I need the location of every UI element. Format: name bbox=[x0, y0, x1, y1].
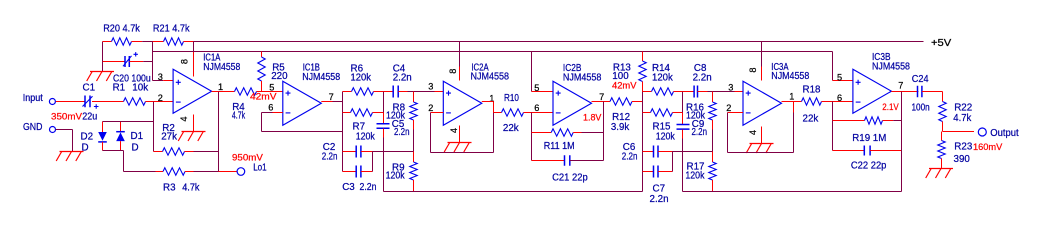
capacitor C5 bbox=[377, 124, 390, 129]
resistor R2 bbox=[154, 148, 219, 155]
label C7 bbox=[653, 184, 666, 195]
capacitor C20 bbox=[103, 52, 153, 67]
label R17 bbox=[687, 162, 705, 173]
label R13 value bbox=[612, 71, 629, 82]
svg-text:Output: Output bbox=[990, 128, 1019, 139]
label C24 value bbox=[912, 102, 930, 113]
svg-text:Lo1: Lo1 bbox=[253, 162, 267, 173]
wire IC1A output bbox=[212, 91, 219, 93]
label R9 bbox=[392, 163, 405, 174]
wire stage4 bottom line bbox=[683, 191, 902, 193]
pin 2 IC2A bbox=[428, 103, 433, 113]
label R8 value bbox=[386, 111, 405, 122]
diode D1 bbox=[116, 122, 125, 151]
label IC1A part bbox=[203, 62, 240, 73]
svg-text:42mV: 42mV bbox=[250, 91, 277, 101]
svg-text:4: 4 bbox=[179, 117, 189, 122]
ground (R23) bbox=[926, 169, 953, 179]
label 950mV bbox=[232, 152, 263, 162]
node X vertical bbox=[642, 92, 644, 192]
label R1 value bbox=[132, 83, 148, 94]
resistor R8 bbox=[410, 92, 417, 152]
svg-text:+5V: +5V bbox=[931, 38, 952, 49]
ground (bias divider) bbox=[87, 62, 114, 82]
pin 2 IC1A bbox=[158, 93, 163, 103]
label IC1A bbox=[203, 53, 220, 64]
svg-text:4.7k: 4.7k bbox=[953, 113, 971, 124]
ground (IC1A pin4) bbox=[178, 132, 205, 142]
label C6 bbox=[623, 142, 636, 153]
svg-text:D2: D2 bbox=[81, 132, 94, 143]
svg-text:C7: C7 bbox=[653, 184, 666, 195]
label R7 value bbox=[356, 132, 375, 143]
svg-text:R21 4.7k: R21 4.7k bbox=[153, 24, 190, 35]
bias rail corner to IC3B pin5 bbox=[832, 52, 834, 81]
label R19 bbox=[852, 133, 886, 144]
svg-text:1: 1 bbox=[789, 92, 794, 102]
svg-text:C1: C1 bbox=[83, 83, 96, 94]
label Output bbox=[990, 128, 1019, 139]
wire to Lo1 bbox=[219, 171, 238, 173]
wire C5 bottom bbox=[383, 129, 385, 192]
ground (GND terminal) bbox=[56, 152, 83, 162]
label IC3B bbox=[872, 52, 891, 63]
node IC2B fb vertical bbox=[531, 113, 533, 161]
wire IC2B pin5 bbox=[532, 91, 554, 93]
resistor R6 bbox=[343, 88, 384, 95]
wire IC3B output bbox=[891, 91, 918, 93]
svg-text:1: 1 bbox=[218, 82, 223, 92]
svg-text:4.7k: 4.7k bbox=[182, 182, 199, 193]
label R11 bbox=[544, 141, 575, 152]
label R21 bbox=[153, 24, 190, 35]
svg-text:4.7k: 4.7k bbox=[232, 111, 245, 122]
label R10 bbox=[504, 93, 519, 104]
svg-text:390: 390 bbox=[954, 154, 971, 165]
label R16 bbox=[686, 103, 705, 114]
svg-text:C24: C24 bbox=[912, 74, 929, 85]
svg-text:27k: 27k bbox=[161, 132, 177, 143]
wire IC2B output bbox=[592, 101, 611, 103]
label R18 value bbox=[803, 114, 819, 125]
label C2 bbox=[323, 142, 336, 153]
svg-text:160mV: 160mV bbox=[973, 142, 1002, 152]
wire C2 C3 right vertical bbox=[372, 152, 374, 172]
svg-text:7: 7 bbox=[329, 92, 334, 102]
op-amp IC3A bbox=[743, 81, 782, 125]
pin 4 IC3A stub bbox=[761, 127, 763, 144]
wire R5 to IC1B pin5 bbox=[262, 91, 283, 93]
svg-text:R20 4.7k: R20 4.7k bbox=[103, 24, 140, 35]
svg-text:2.2n: 2.2n bbox=[322, 152, 338, 163]
svg-text:8: 8 bbox=[448, 69, 458, 74]
svg-text:5: 5 bbox=[837, 73, 842, 83]
svg-text:NJM4558: NJM4558 bbox=[563, 72, 602, 83]
label IC3B part bbox=[872, 62, 910, 73]
svg-text:7: 7 bbox=[599, 92, 604, 102]
resistor R3 bbox=[124, 168, 219, 175]
svg-text:100n: 100n bbox=[912, 102, 930, 113]
label IC1B bbox=[303, 62, 320, 73]
svg-text:NJM4558: NJM4558 bbox=[471, 72, 510, 83]
label IC3A bbox=[771, 62, 789, 73]
svg-text:120k: 120k bbox=[656, 132, 675, 143]
label R14 value bbox=[652, 73, 673, 84]
op-amp IC2A bbox=[443, 81, 482, 125]
capacitor C21 bbox=[532, 155, 604, 166]
svg-text:2: 2 bbox=[726, 103, 731, 113]
label D1 bbox=[131, 131, 144, 142]
label C4 value bbox=[393, 72, 412, 83]
pin 8 IC1A bbox=[179, 59, 189, 64]
node S2 vertical bbox=[342, 92, 344, 172]
wire Vbias to pin3 bbox=[153, 80, 174, 82]
wire IC3A feedback bbox=[728, 113, 794, 153]
label C4 bbox=[393, 64, 406, 75]
svg-text:4: 4 bbox=[748, 130, 758, 135]
label R15 value bbox=[656, 132, 675, 143]
node Vbias vertical bbox=[152, 42, 154, 81]
svg-text:120k: 120k bbox=[686, 111, 705, 122]
capacitor C7 bbox=[643, 166, 673, 178]
svg-text:1.8V: 1.8V bbox=[583, 113, 601, 123]
node IC3B out vertical bbox=[901, 92, 903, 192]
svg-text:3: 3 bbox=[728, 83, 733, 93]
terminal Output bbox=[978, 128, 986, 136]
label 1.8V bbox=[583, 113, 601, 123]
svg-text:NJM4558: NJM4558 bbox=[872, 62, 910, 73]
resistor R10 bbox=[494, 109, 532, 116]
label R12 bbox=[612, 112, 630, 123]
resistor R14 bbox=[643, 88, 683, 95]
label C24 bbox=[912, 74, 929, 85]
svg-text:6: 6 bbox=[268, 103, 273, 113]
label R6 value bbox=[351, 72, 372, 83]
ground (IC2A pin4) bbox=[444, 143, 471, 153]
wire IC2A feedback bbox=[431, 113, 494, 153]
pin 1 IC3A bbox=[789, 92, 794, 102]
svg-text:C20 100u: C20 100u bbox=[113, 74, 151, 85]
wire IC1B pin6 elbow bbox=[261, 113, 263, 132]
label C1 bbox=[83, 83, 96, 94]
svg-text:120k: 120k bbox=[386, 171, 405, 182]
label 22u bbox=[82, 111, 97, 122]
resistor R13 bbox=[639, 52, 646, 92]
node A vertical (IC1A inverting input net) bbox=[153, 102, 155, 152]
resistor R21 bbox=[153, 38, 194, 45]
label D2 bbox=[81, 132, 94, 143]
capacitor C22 bbox=[833, 146, 902, 156]
resistor R12 bbox=[610, 98, 643, 105]
label R5 bbox=[272, 62, 285, 73]
label R22 bbox=[954, 103, 972, 114]
wire IC3A output bbox=[782, 102, 794, 113]
svg-text:D: D bbox=[132, 143, 139, 154]
label C9 value bbox=[692, 127, 708, 138]
wire IC3A pin2 bbox=[728, 112, 744, 114]
svg-text:2.2n: 2.2n bbox=[360, 182, 377, 193]
label R20 bbox=[103, 24, 140, 35]
svg-text:6: 6 bbox=[534, 103, 539, 113]
svg-text:2.2n: 2.2n bbox=[692, 127, 708, 138]
capacitor C24 bbox=[918, 86, 943, 98]
pin 6 IC3B bbox=[837, 93, 842, 103]
svg-text:R18: R18 bbox=[803, 85, 822, 96]
terminal Lo1 bbox=[237, 168, 245, 176]
svg-text:220: 220 bbox=[271, 71, 288, 82]
label R10 value bbox=[503, 123, 519, 134]
wire C1 to R1 bbox=[92, 101, 124, 103]
svg-text:Input: Input bbox=[23, 93, 43, 104]
pin 1 IC2A bbox=[489, 94, 494, 104]
pin 8 IC3A bbox=[748, 67, 758, 72]
node IC2B out vertical bbox=[603, 102, 605, 161]
svg-text:2.2n: 2.2n bbox=[394, 127, 410, 138]
svg-text:2.2n: 2.2n bbox=[622, 152, 638, 163]
wire IC1B pin6 bbox=[262, 112, 283, 114]
svg-text:C21 22p: C21 22p bbox=[552, 173, 588, 184]
pin 5 IC3B bbox=[837, 73, 842, 83]
label C3 value bbox=[360, 182, 377, 193]
pin 2 IC3A bbox=[726, 103, 731, 113]
label R18 bbox=[803, 85, 822, 96]
label IC2B part bbox=[563, 72, 602, 83]
pin 4 IC3A bbox=[748, 130, 758, 135]
capacitor C9 bbox=[677, 125, 690, 130]
svg-text:4: 4 bbox=[449, 128, 459, 133]
pin 3 IC1A bbox=[158, 72, 163, 82]
label R1 bbox=[113, 83, 126, 94]
resistor R15 bbox=[643, 109, 683, 116]
capacitor C3 bbox=[343, 166, 373, 178]
wire C6 C7 right vertical bbox=[672, 152, 674, 172]
node B vertical bbox=[383, 92, 385, 124]
capacitor C8 bbox=[683, 86, 744, 98]
pin 7 IC1B bbox=[329, 92, 334, 102]
svg-text:C3: C3 bbox=[342, 182, 355, 193]
resistor R11 bbox=[532, 129, 604, 136]
label R4 value bbox=[232, 111, 245, 122]
svg-text:R10: R10 bbox=[504, 93, 519, 104]
label R16 value bbox=[686, 111, 705, 122]
label IC2B bbox=[563, 63, 582, 74]
resistor R18 bbox=[794, 98, 833, 105]
svg-text:R11 1M: R11 1M bbox=[544, 141, 575, 152]
svg-text:R19 1M: R19 1M bbox=[852, 133, 886, 144]
svg-text:120k: 120k bbox=[652, 73, 673, 84]
wire diode bottom rail bbox=[103, 150, 124, 152]
label R9 value bbox=[386, 171, 405, 182]
label C8 value bbox=[693, 73, 712, 84]
node IC3B fb vertical bbox=[832, 102, 834, 151]
pin 6 IC1B bbox=[268, 103, 273, 113]
svg-text:120k: 120k bbox=[351, 72, 372, 83]
svg-text:GND: GND bbox=[23, 122, 42, 133]
label R17 value bbox=[685, 171, 704, 182]
pin 4 IC2A stub bbox=[459, 126, 461, 143]
resistor R5 bbox=[258, 52, 265, 92]
label R3 bbox=[163, 182, 176, 193]
svg-text:950mV: 950mV bbox=[232, 152, 263, 162]
wire IC2A pin2 bbox=[431, 112, 444, 114]
label R23 bbox=[954, 142, 973, 153]
pin 3 IC3A bbox=[728, 83, 733, 93]
capacitor C1 bbox=[83, 96, 99, 109]
op-amp IC3B bbox=[853, 69, 892, 113]
svg-text:8: 8 bbox=[748, 67, 758, 72]
pin 5 IC2B bbox=[534, 83, 539, 93]
+5V rail bbox=[194, 41, 924, 43]
label IC1B part bbox=[302, 72, 340, 83]
label Lo1 bbox=[253, 162, 267, 173]
svg-text:120k: 120k bbox=[386, 111, 405, 122]
op-amp IC1B bbox=[283, 81, 322, 125]
label C21 bbox=[552, 173, 588, 184]
label C3 bbox=[342, 182, 355, 193]
svg-text:2.1V: 2.1V bbox=[882, 102, 898, 112]
label IC3A part bbox=[771, 71, 809, 82]
label R4 bbox=[232, 102, 245, 113]
label 2.1V bbox=[882, 102, 898, 112]
svg-text:3: 3 bbox=[428, 81, 433, 91]
capacitor C2 bbox=[343, 146, 373, 158]
input terminal bbox=[23, 93, 56, 105]
pin 1 IC1A bbox=[218, 82, 223, 92]
resistor R9 bbox=[410, 152, 417, 192]
node B2 vertical bbox=[682, 92, 684, 125]
label D2 value bbox=[82, 143, 89, 154]
svg-text:NJM4558: NJM4558 bbox=[771, 71, 809, 82]
label R13 bbox=[613, 62, 632, 73]
label R2 bbox=[162, 123, 175, 134]
resistor R19 bbox=[833, 117, 902, 124]
wire input to C1 bbox=[56, 101, 85, 103]
label C22 bbox=[851, 160, 887, 171]
svg-text:5: 5 bbox=[534, 83, 539, 93]
svg-text:7: 7 bbox=[898, 81, 903, 91]
svg-text:2: 2 bbox=[428, 103, 433, 113]
label R14 bbox=[652, 63, 671, 74]
svg-text:2.2n: 2.2n bbox=[393, 72, 412, 83]
diode D2 bbox=[98, 122, 107, 151]
label R5 value bbox=[271, 71, 288, 82]
resistor R1 bbox=[124, 98, 146, 105]
wire to Output bbox=[943, 131, 975, 133]
wire diode top rail bbox=[103, 121, 154, 123]
resistor R20 bbox=[103, 38, 153, 45]
bias rail bbox=[153, 51, 833, 53]
pin 8 IC3A stub bbox=[761, 42, 763, 81]
label C5 bbox=[392, 119, 405, 130]
svg-text:22u: 22u bbox=[82, 111, 97, 122]
pin 7 IC3B bbox=[898, 81, 903, 91]
pin 8 IC2A stub bbox=[459, 42, 461, 81]
pin 4 IC1A bbox=[179, 117, 189, 122]
wire IC2A output bbox=[482, 102, 494, 113]
svg-text:2: 2 bbox=[158, 93, 163, 103]
label R12 value bbox=[611, 122, 629, 133]
svg-text:3.9k: 3.9k bbox=[611, 122, 629, 133]
op-amp IC1A bbox=[173, 69, 212, 113]
pin 6 IC2B bbox=[534, 103, 539, 113]
svg-text:2.2n: 2.2n bbox=[693, 73, 712, 84]
capacitor C6 bbox=[643, 146, 673, 158]
label R22 value bbox=[953, 113, 971, 124]
svg-text:2.2n: 2.2n bbox=[650, 194, 669, 205]
svg-text:350mV: 350mV bbox=[51, 111, 82, 121]
label 42mV (IC1B input) bbox=[250, 91, 277, 101]
resistor R4 bbox=[219, 88, 262, 95]
label IC2A part bbox=[471, 72, 510, 83]
label +5V bbox=[931, 38, 952, 49]
pin 4 IC1A stub bbox=[193, 115, 195, 132]
wire C9 bottom bbox=[682, 130, 684, 192]
label 42mV (IC2B output) bbox=[612, 80, 637, 90]
wire IC3B pin5 bbox=[833, 80, 853, 82]
svg-text:NJM4558: NJM4558 bbox=[302, 72, 340, 83]
label R3 value bbox=[182, 182, 199, 193]
wire node A to pin2 bbox=[154, 101, 174, 103]
resistor R17 bbox=[709, 152, 716, 192]
label C5 value bbox=[394, 127, 410, 138]
label 160mV bbox=[973, 142, 1002, 152]
wire GND terminal bbox=[56, 130, 73, 152]
ground (IC3A pin4) bbox=[746, 144, 773, 154]
wire +5V rail corner bbox=[102, 42, 104, 62]
label R23 value bbox=[954, 154, 971, 165]
wire diode bottom to R3 bbox=[123, 151, 125, 172]
wire R1 to node A bbox=[146, 101, 154, 103]
label 350mV bbox=[51, 111, 82, 121]
label R8 bbox=[393, 103, 406, 114]
wire IC1B feedback line bbox=[262, 131, 343, 133]
resistor R7 bbox=[343, 109, 384, 116]
wire IC1B output bbox=[321, 101, 342, 103]
label IC2A bbox=[471, 62, 489, 73]
svg-text:NJM4558: NJM4558 bbox=[203, 62, 240, 73]
label R7 bbox=[353, 122, 366, 133]
wire stage2 bottom line bbox=[384, 191, 643, 193]
label C7 value bbox=[650, 194, 669, 205]
label R15 bbox=[653, 122, 672, 133]
label D1 value bbox=[132, 143, 139, 154]
svg-text:R23: R23 bbox=[954, 142, 973, 153]
pin 5 IC1B bbox=[269, 83, 274, 93]
label C2 value bbox=[322, 152, 338, 163]
wire IC3B pin6 bbox=[833, 101, 853, 103]
pin 4 IC2A bbox=[449, 128, 459, 133]
label C6 value bbox=[622, 152, 638, 163]
node Lo1 vertical bbox=[218, 92, 220, 172]
resistor R23 bbox=[938, 132, 945, 169]
wire stage4 mid line bbox=[673, 151, 713, 153]
op-amp IC2B bbox=[553, 81, 592, 125]
label C8 bbox=[694, 63, 707, 74]
svg-text:C22 22p: C22 22p bbox=[851, 160, 887, 171]
svg-text:5: 5 bbox=[269, 83, 274, 93]
wire IC2B pin5 riser bbox=[531, 52, 533, 92]
pin 7 IC2B bbox=[599, 92, 604, 102]
svg-text:6: 6 bbox=[837, 93, 842, 103]
svg-text:3: 3 bbox=[158, 72, 163, 82]
GND terminal bbox=[23, 122, 56, 133]
label R6 bbox=[351, 64, 364, 75]
svg-text:22k: 22k bbox=[503, 123, 519, 134]
svg-text:D1: D1 bbox=[131, 131, 144, 142]
wire IC2B pin6 bbox=[532, 112, 554, 114]
svg-text:120k: 120k bbox=[685, 171, 704, 182]
pin 8 IC2A bbox=[448, 69, 458, 74]
